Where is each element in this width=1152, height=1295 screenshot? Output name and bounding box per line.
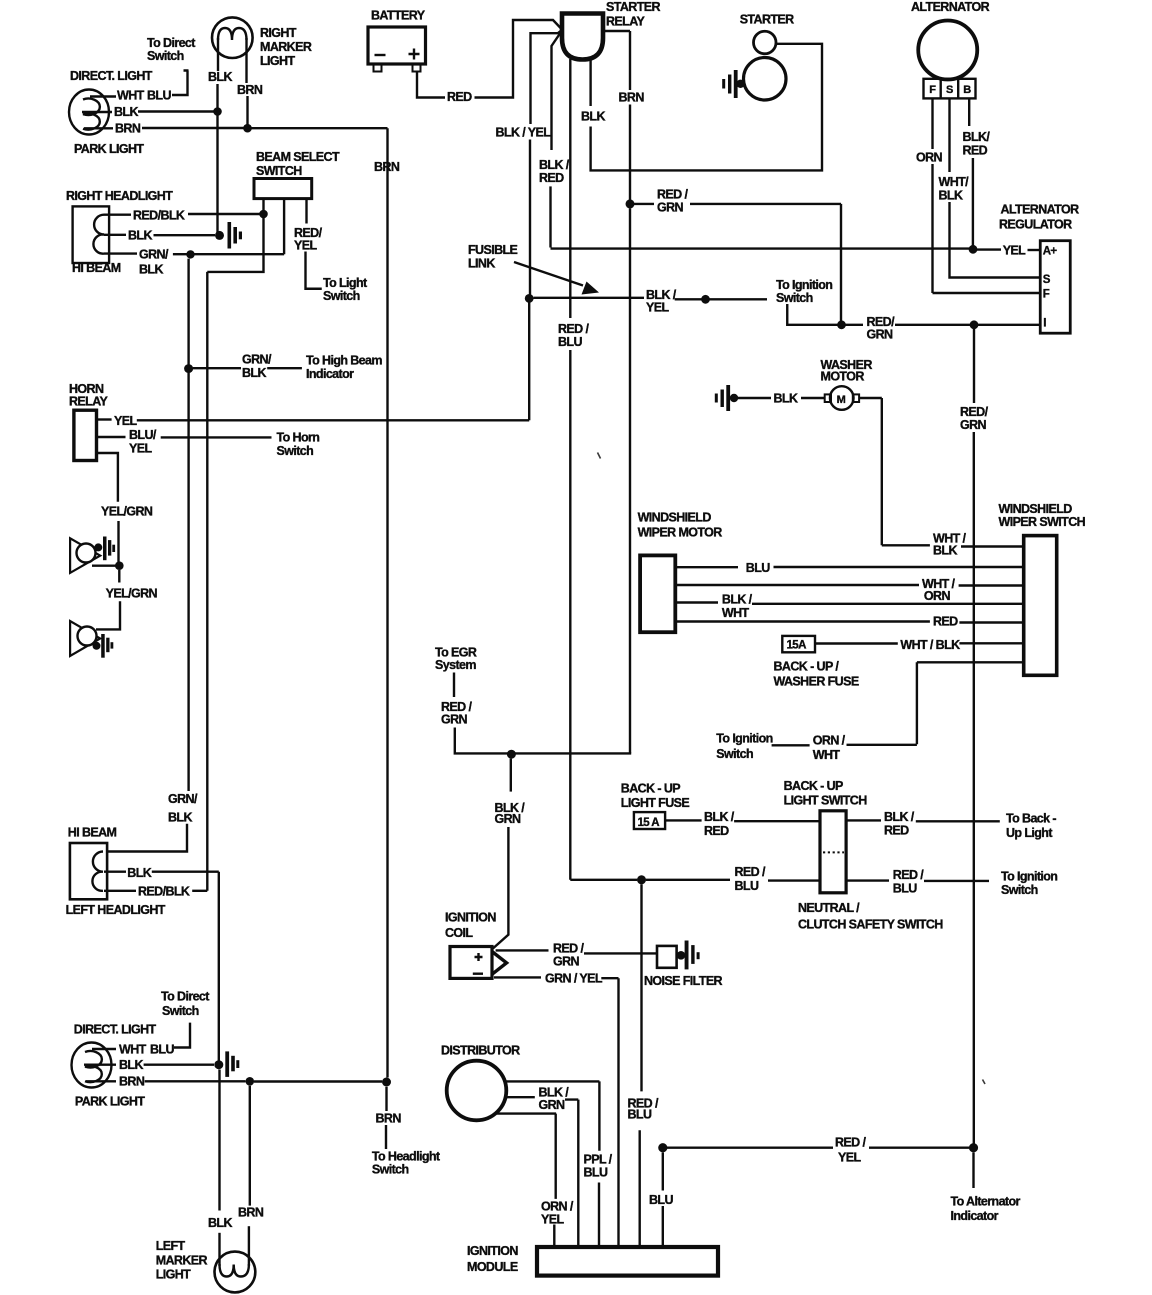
wire: ORN/WHT pin of wiper switch to ignition switch — [917, 662, 1024, 744]
svg-text:GRN: GRN — [553, 955, 580, 969]
svg-text:BLU: BLU — [649, 1193, 673, 1207]
svg-text:RED /: RED / — [735, 865, 766, 879]
svg-text:RED: RED — [447, 90, 472, 104]
svg-text:Switch: Switch — [323, 289, 360, 303]
node: start of RED/GRN long drop — [970, 320, 979, 329]
svg-text:YEL: YEL — [646, 301, 669, 315]
svg-text:F: F — [1043, 289, 1050, 301]
wire: RED/GRN branch to ignition switch riser — [634, 203, 654, 205]
svg-text:BLU/: BLU/ — [129, 428, 157, 442]
svg-text:GRN: GRN — [960, 418, 987, 432]
svg-text:YEL/GRN: YEL/GRN — [106, 587, 158, 601]
svg-text:BRN: BRN — [374, 160, 400, 174]
svg-text:GRN / YEL: GRN / YEL — [545, 972, 603, 986]
svg-text:S: S — [946, 84, 953, 96]
wire: BRN long riser x387 from top BRN line down to node — [386, 128, 388, 1077]
washer motor body M — [825, 394, 831, 402]
node: BRN tap to left marker — [246, 1077, 255, 1086]
wire: wiper motor lead 2 (WHT/ORN) — [675, 584, 919, 586]
svg-text:To Headlight: To Headlight — [372, 1150, 441, 1164]
svg-text:GRN/: GRN/ — [242, 353, 272, 367]
wire: GRN/YEL from coil negative — [494, 976, 541, 978]
ground: horn 2 ground — [93, 642, 101, 650]
node: BRN junction under right marker light — [243, 124, 252, 133]
component: back-up / washer fuse 15A — [782, 636, 815, 652]
coil HT terminal — [492, 952, 507, 975]
svg-text:RED /: RED / — [558, 322, 589, 336]
svg-text:Up Light: Up Light — [1006, 826, 1053, 840]
stray scan mark 1 — [598, 453, 601, 459]
svg-text:Switch: Switch — [277, 444, 314, 458]
wire: B lead (BLK/RED) down to YEL node — [968, 98, 970, 126]
node: GRN/BLK junction — [186, 250, 194, 258]
filament arcs of left headlight — [92, 852, 103, 891]
svg-text:STARTER: STARTER — [740, 13, 794, 27]
wire: RED/BLU drop from junction to ignition module — [640, 884, 642, 1091]
wire: beam select switch left pin down to RED/BLK node — [262, 199, 264, 210]
wire: BLK/RED from switch to back-up light — [846, 819, 881, 821]
svg-text:GRN: GRN — [657, 201, 684, 215]
wire: BLK/YEL from relay stud down — [531, 30, 563, 124]
svg-text:BLK / YEL: BLK / YEL — [496, 125, 552, 139]
wire: RED/BLU from switch right to ignition switch — [846, 879, 889, 881]
svg-text:PPL /: PPL / — [584, 1153, 613, 1167]
wire: F lead (ORN) down to regulator F — [931, 98, 933, 149]
svg-text:YEL: YEL — [294, 239, 317, 253]
svg-text:WHT/: WHT/ — [939, 175, 970, 189]
wire: high beam indicator branch — [193, 367, 241, 369]
svg-text:System: System — [435, 658, 476, 672]
alternator F S B terminal block — [924, 79, 976, 99]
wire: BLK from relay bottom right pin to starter — [589, 59, 591, 106]
svg-text:M: M — [837, 394, 846, 406]
filament arcs of park light (bottom) — [85, 1051, 102, 1082]
wire: BLK pin of park light (top) — [82, 111, 112, 113]
svg-text:WHT: WHT — [119, 1043, 147, 1057]
svg-text:GRN/: GRN/ — [168, 792, 198, 806]
component: noise filter — [657, 946, 677, 968]
svg-text:REGULATOR: REGULATOR — [999, 218, 1072, 232]
svg-text:GRN/: GRN/ — [139, 248, 169, 262]
svg-text:DISTRIBUTOR: DISTRIBUTOR — [441, 1044, 520, 1058]
svg-text:BLK: BLK — [127, 866, 151, 880]
lamp: park light / direct light bulb (top-left) — [69, 90, 109, 135]
svg-text:MOTOR: MOTOR — [821, 370, 865, 384]
svg-text:BLK: BLK — [208, 1216, 232, 1230]
svg-text:BLU: BLU — [628, 1108, 652, 1122]
wire: BLK pin of left headlight going down — [104, 871, 126, 873]
svg-text:FUSIBLE: FUSIBLE — [468, 243, 518, 257]
svg-text:DIRECT. LIGHT: DIRECT. LIGHT — [74, 1023, 157, 1037]
svg-text:BLK /: BLK / — [704, 810, 735, 824]
svg-text:BLU: BLU — [147, 89, 171, 103]
svg-text:LINK: LINK — [468, 257, 495, 271]
wire: RED battery feed to starter relay — [417, 72, 445, 98]
svg-text:WIPER SWITCH: WIPER SWITCH — [999, 515, 1086, 529]
svg-text:GRN: GRN — [539, 1098, 566, 1112]
svg-text:BLK: BLK — [114, 105, 138, 119]
svg-text:BLK: BLK — [208, 70, 232, 84]
svg-text:ALTERNATOR: ALTERNATOR — [911, 0, 990, 14]
wire: BLK pin of right headlight to ground G1 — [104, 234, 126, 236]
svg-text:To Horn: To Horn — [277, 430, 320, 444]
node: B-lead junction on YEL feed — [969, 245, 978, 254]
svg-text:BLK: BLK — [139, 262, 163, 276]
wire: wiper motor lead 4 (RED) — [675, 620, 930, 622]
svg-text:YEL/GRN: YEL/GRN — [101, 505, 153, 519]
svg-text:WINDSHIELD: WINDSHIELD — [638, 510, 712, 524]
wire: horn relay YEL pin — [97, 418, 112, 420]
wire: BLK pin of park light (bottom) to ground G2 — [84, 1063, 116, 1065]
wire: RED/YEL continues below to alternator indicator — [972, 1152, 974, 1188]
wire: BLK drop from junction to ground — [216, 115, 218, 233]
wire: ORN/YEL from distributor to module — [497, 1114, 556, 1199]
svg-text:NOISE FILTER: NOISE FILTER — [644, 974, 723, 988]
svg-text:BLU: BLU — [558, 335, 582, 349]
svg-text:WHT: WHT — [722, 606, 750, 620]
svg-text:WHT: WHT — [117, 89, 145, 103]
svg-text:RED: RED — [539, 171, 564, 185]
svg-text:NEUTRAL /: NEUTRAL / — [798, 901, 860, 915]
svg-text:BRN: BRN — [115, 122, 141, 136]
svg-text:Indicator: Indicator — [951, 1209, 999, 1223]
svg-text:BACK - UP: BACK - UP — [621, 782, 680, 796]
svg-text:GRN: GRN — [867, 328, 894, 342]
svg-text:RED: RED — [704, 824, 729, 838]
svg-text:SWITCH: SWITCH — [256, 164, 302, 178]
wire: WHT BLU pin of park light (bottom) — [92, 1048, 116, 1050]
wire: beam select switch right pin (RED/YEL) — [305, 199, 307, 224]
svg-text:Switch: Switch — [776, 291, 813, 305]
svg-text:LEFT: LEFT — [156, 1239, 186, 1253]
svg-text:RED /: RED / — [893, 868, 924, 882]
svg-text:WIPER MOTOR: WIPER MOTOR — [638, 526, 723, 540]
svg-text:BRN: BRN — [119, 1075, 145, 1089]
svg-text:ORN /: ORN / — [541, 1200, 574, 1214]
svg-text:HI BEAM: HI BEAM — [68, 826, 117, 840]
wire: dogleg from RED/BLK node down-left — [207, 218, 263, 272]
wire: BLK/YEL horizontal to ignition switch — [525, 294, 534, 303]
svg-text:MARKER: MARKER — [156, 1254, 208, 1268]
svg-text:BLU: BLU — [150, 1043, 174, 1057]
wire: BLK/GRN drop to ignition coil — [510, 759, 512, 792]
battery terminal posts — [374, 64, 382, 72]
svg-text:RED /: RED / — [835, 1136, 866, 1150]
wire: BLK to washer motor — [738, 397, 771, 399]
svg-text:WHT: WHT — [813, 748, 841, 762]
svg-text:BLK: BLK — [242, 366, 266, 380]
ground: horn 1 ground — [94, 543, 102, 551]
svg-text:RED /: RED / — [553, 942, 584, 956]
wire: RED/GRN from EGR label down to rail — [453, 673, 455, 698]
wire: wiper motor lead 3 (BLK/WHT) — [675, 601, 718, 603]
wire: RED/BLU rail from relay drop to back-up switch — [570, 879, 637, 881]
horn: horn 1 (upper) — [70, 538, 100, 573]
filament of right marker light (m-shape) — [218, 28, 247, 40]
wire: bracket to direct switch (bottom) — [174, 1023, 190, 1048]
svg-text:BRN: BRN — [238, 1205, 264, 1219]
wire: PPL/BLU from distributor to module — [506, 1081, 600, 1150]
svg-text:ORN: ORN — [916, 151, 943, 165]
svg-text:YEL: YEL — [129, 442, 152, 456]
node: GRN/BLK high-beam tap — [184, 364, 193, 373]
wire: BLK/RED from fuse to back-up light switch — [665, 819, 702, 821]
svg-text:WHT / BLK: WHT / BLK — [900, 638, 960, 652]
svg-text:MODULE: MODULE — [467, 1260, 518, 1274]
wire: BRN pin of park light (bottom) — [86, 1080, 116, 1082]
svg-text:Switch: Switch — [1001, 883, 1038, 897]
svg-text:A+: A+ — [1043, 246, 1058, 258]
svg-text:BACK - UP: BACK - UP — [784, 779, 843, 793]
svg-text:BLU: BLU — [746, 561, 770, 575]
svg-text:To High Beam: To High Beam — [306, 354, 382, 368]
svg-text:To Direct: To Direct — [147, 36, 196, 50]
node: RED/BLU junction above noise filter — [637, 875, 646, 884]
svg-text:I: I — [1043, 318, 1046, 330]
lamp: park light / direct light bulb (bottom-left) — [72, 1043, 112, 1088]
wire: horn 1 to YEL/GRN node — [92, 565, 116, 567]
svg-text:To Back -: To Back - — [1006, 811, 1056, 825]
wire: BRN from relay right pin down — [603, 31, 630, 90]
svg-text:RELAY: RELAY — [69, 395, 108, 409]
coil minus symbol — [473, 973, 483, 975]
svg-text:Switch: Switch — [162, 1004, 199, 1018]
svg-text:PARK LIGHT: PARK LIGHT — [75, 1095, 145, 1109]
svg-text:WASHER FUSE: WASHER FUSE — [774, 675, 859, 689]
wire: WHT/BLK fuse lead to wiper switch — [815, 642, 898, 644]
wire: BRN leg of right marker light — [245, 38, 247, 83]
svg-text:BLK: BLK — [128, 229, 152, 243]
horn: horn 2 (lower) — [70, 621, 100, 656]
filament of left marker light (w-shape) — [220, 1264, 249, 1277]
wire: BLU drop from tap to module — [662, 1152, 664, 1190]
wire: WHT BLU pin of park light (top) — [90, 95, 116, 97]
svg-text:BLK: BLK — [119, 1058, 143, 1072]
ground: noise filter ground — [677, 951, 686, 960]
svg-text:LIGHT FUSE: LIGHT FUSE — [621, 796, 690, 810]
svg-text:To Light: To Light — [323, 276, 368, 290]
wire: RED/GRN coil feed from noise filter line — [496, 949, 549, 951]
wire: BLU wiper motor to switch — [675, 566, 738, 568]
svg-text:BEAM SELECT: BEAM SELECT — [256, 150, 340, 164]
lamp: right marker light bulb — [212, 17, 253, 58]
svg-text:RED: RED — [963, 144, 988, 158]
svg-text:ALTERNATOR: ALTERNATOR — [1001, 203, 1080, 217]
wire: RED/BLK pin of left headlight — [104, 890, 136, 892]
wire: RED/BLK pin of right headlight — [104, 213, 131, 215]
wire: horn relay BLU/YEL pin — [97, 436, 126, 438]
stray scan mark 2 — [983, 1080, 986, 1085]
svg-text:YEL: YEL — [1003, 244, 1026, 258]
svg-text:IGNITION: IGNITION — [445, 911, 496, 925]
wire: BRN feed to the right along y128 to BRN riser — [251, 127, 388, 129]
ground: washer motor ground — [730, 394, 738, 402]
svg-text:RIGHT: RIGHT — [260, 26, 297, 40]
svg-text:MARKER: MARKER — [260, 40, 312, 54]
svg-text:BRN: BRN — [376, 1112, 402, 1126]
svg-text:LIGHT: LIGHT — [260, 54, 295, 68]
wire: BRN below riser node to headlight switch — [385, 1087, 387, 1111]
svg-text:BLK: BLK — [774, 392, 798, 406]
svg-text:BLU: BLU — [893, 882, 917, 896]
wire: BLK leg of right marker light — [217, 38, 219, 71]
svg-text:LIGHT: LIGHT — [156, 1268, 191, 1282]
filament arcs of park light (top) — [83, 99, 100, 130]
svg-text:ORN: ORN — [924, 589, 951, 603]
wire: bracket to direct switch — [172, 71, 189, 96]
ground: starter ground — [736, 80, 744, 88]
wire: ignition switch stub joining RED/GRN riser — [787, 304, 837, 325]
svg-text:BLK: BLK — [581, 110, 605, 124]
wire: washer motor output to wiper switch WHT/BLK pin — [859, 398, 930, 545]
node: BRN riser junction — [382, 1078, 391, 1087]
wire: GRN/BLK vertical from node down left side — [187, 259, 189, 365]
wire: RED/YEL cross link at bottom — [969, 1143, 978, 1152]
svg-text:Indicator: Indicator — [306, 367, 354, 381]
wire: BLK continues below ground to left marker — [218, 1070, 220, 1211]
wire: RED/GRN long drop from regulator I to bottom — [973, 329, 975, 403]
svg-text:Switch: Switch — [147, 49, 184, 63]
svg-text:Switch: Switch — [716, 747, 753, 761]
svg-text:RIGHT HEADLIGHT: RIGHT HEADLIGHT — [66, 189, 173, 203]
battery plus symbol — [409, 49, 420, 60]
svg-text:To Ignition: To Ignition — [1001, 870, 1057, 884]
wire: GRN/BLK to beam select switch centre pin — [194, 199, 284, 255]
svg-text:BLU: BLU — [584, 1166, 608, 1180]
svg-text:WINDSHIELD: WINDSHIELD — [999, 502, 1073, 516]
svg-text:BATTERY: BATTERY — [371, 9, 426, 23]
svg-text:BRN: BRN — [237, 83, 263, 97]
svg-text:LEFT HEADLIGHT: LEFT HEADLIGHT — [66, 903, 166, 917]
svg-text:RED: RED — [884, 824, 909, 838]
node: RED/BLK junction under beam select switch — [259, 210, 268, 219]
wire: BRN/RED-GRN drop continues to EGR rail — [629, 208, 631, 753]
filament arcs of right headlight — [93, 215, 104, 254]
wire: BRN pin of park light (top) — [84, 127, 113, 129]
svg-text:BRN: BRN — [619, 91, 645, 105]
node: BLK junction at marker light drop — [213, 107, 222, 116]
svg-text:BLK: BLK — [168, 811, 192, 825]
svg-text:BLU: BLU — [735, 879, 759, 893]
lamp: right headlight housing — [73, 206, 110, 263]
svg-text:YEL: YEL — [838, 1151, 861, 1165]
svg-text:GRN: GRN — [495, 812, 522, 826]
svg-text:RED/: RED/ — [960, 405, 989, 419]
svg-text:YEL: YEL — [114, 414, 137, 428]
lamp: left marker light bulb — [215, 1252, 256, 1293]
coil plus symbol — [475, 953, 483, 961]
svg-text:CLUTCH SAFETY SWITCH: CLUTCH SAFETY SWITCH — [798, 918, 943, 932]
svg-text:LIGHT SWITCH: LIGHT SWITCH — [784, 793, 868, 807]
svg-text:BLK/: BLK/ — [963, 130, 991, 144]
svg-text:Switch: Switch — [372, 1163, 409, 1177]
svg-text:DIRECT. LIGHT: DIRECT. LIGHT — [70, 69, 153, 83]
svg-text:BACK - UP /: BACK - UP / — [774, 660, 840, 674]
node: horn 1 tap — [115, 561, 124, 570]
svg-text:BLK: BLK — [933, 544, 957, 558]
ground: shared ground for park/headlight BLK (G1) — [215, 231, 224, 240]
node: splice on BLK/YEL run — [701, 295, 710, 304]
svg-text:RED: RED — [933, 615, 958, 629]
ground: shared ground G2 (left headlight / park light) — [214, 1060, 223, 1069]
svg-text:STARTER: STARTER — [606, 0, 660, 14]
node: BLU tap at bottom — [658, 1143, 667, 1152]
svg-text:ORN /: ORN / — [813, 734, 846, 748]
wire: RED/GRN to regulator I terminal — [846, 324, 864, 326]
svg-text:15 A: 15 A — [638, 817, 660, 829]
wire: GRN/BLK pin of right headlight — [104, 252, 137, 254]
wire: BRN drop from node to left marker light — [249, 1086, 251, 1206]
svg-text:S: S — [1043, 274, 1051, 286]
svg-text:PARK LIGHT: PARK LIGHT — [74, 142, 144, 156]
svg-text:F: F — [929, 84, 936, 96]
svg-text:To Ignition: To Ignition — [716, 732, 772, 746]
svg-text:RELAY: RELAY — [606, 15, 645, 29]
svg-text:IGNITION: IGNITION — [467, 1244, 518, 1258]
wire: BLK/GRN from distributor to module — [506, 1096, 535, 1098]
svg-text:To Direct: To Direct — [161, 990, 210, 1004]
svg-text:BLK: BLK — [939, 189, 963, 203]
battery minus symbol — [375, 54, 386, 56]
fusible link pointer arrow — [514, 262, 583, 286]
svg-text:To Ignition: To Ignition — [776, 278, 832, 292]
wire: horn relay YEL/GRN pin down to horns — [97, 453, 118, 502]
node: junction of riser and regulator I line — [837, 320, 846, 329]
svg-text:RED/BLK: RED/BLK — [138, 884, 190, 898]
svg-text:COIL: COIL — [445, 926, 473, 940]
wire: BLK/RED from relay stud down to YEL feed — [552, 31, 563, 151]
svg-text:BLK /: BLK / — [722, 592, 753, 606]
node: RED/GRN junction on BRN drop — [626, 199, 635, 208]
svg-text:BLK /: BLK / — [539, 158, 570, 172]
svg-text:YEL: YEL — [541, 1213, 564, 1227]
wire: RED/BLK long vertical to left headlight — [206, 272, 208, 891]
wire: S lead (WHT/BLK) down to regulator S — [948, 98, 950, 172]
svg-text:BLK /: BLK / — [884, 810, 915, 824]
wire: YEL feed across to alternator regulator A+ — [551, 247, 971, 249]
svg-text:15A: 15A — [787, 640, 807, 652]
svg-text:To Alternator: To Alternator — [951, 1195, 1021, 1209]
node: BLK/GRN tap on EGR rail — [507, 750, 516, 759]
wire: RED/BLU from relay bottom left pin down — [569, 59, 571, 318]
svg-text:B: B — [963, 84, 971, 96]
svg-text:HI BEAM: HI BEAM — [72, 261, 121, 275]
svg-text:GRN: GRN — [441, 713, 468, 727]
svg-text:RED/BLK: RED/BLK — [133, 209, 185, 223]
